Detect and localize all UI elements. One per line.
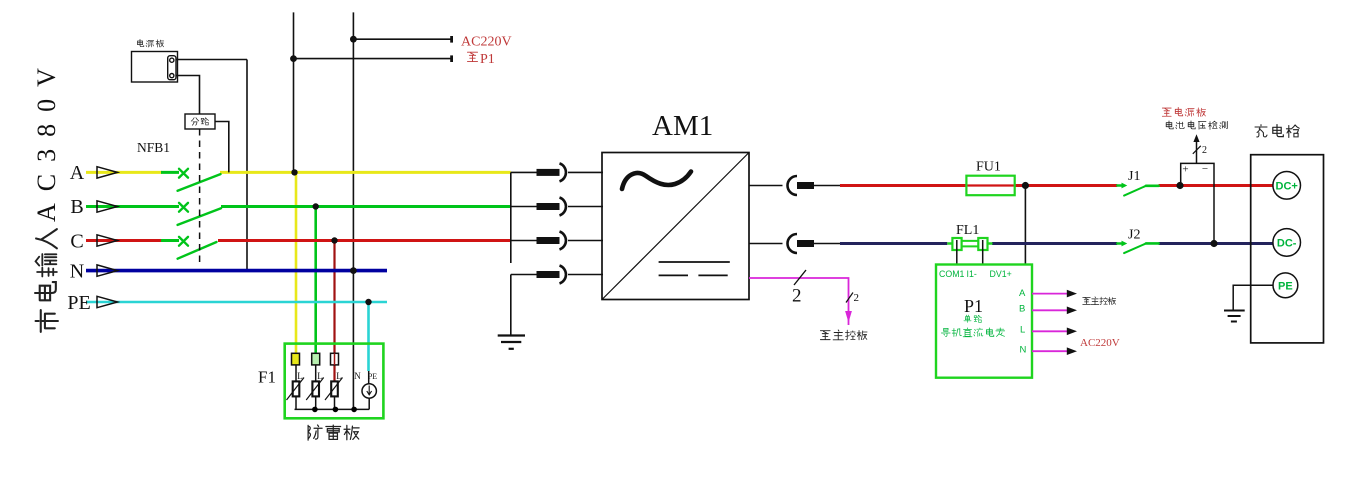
svg-text:J2: J2 bbox=[1128, 228, 1140, 243]
svg-text:L: L bbox=[317, 371, 323, 381]
svg-text:2: 2 bbox=[792, 286, 802, 307]
svg-text:AC220V: AC220V bbox=[1080, 337, 1120, 349]
svg-text:AC220V: AC220V bbox=[461, 35, 512, 50]
svg-text:A: A bbox=[1019, 288, 1026, 299]
svg-text:+: + bbox=[1182, 164, 1188, 176]
svg-text:P1: P1 bbox=[480, 52, 495, 67]
svg-text:F1: F1 bbox=[258, 368, 276, 387]
svg-text:PE: PE bbox=[1278, 280, 1293, 292]
svg-text:NFB1: NFB1 bbox=[137, 140, 170, 155]
svg-text:−: − bbox=[1202, 163, 1208, 175]
svg-text:2: 2 bbox=[1202, 145, 1207, 156]
svg-text:J1: J1 bbox=[1128, 169, 1140, 184]
svg-text:COM1: COM1 bbox=[939, 269, 965, 279]
svg-text:FL1: FL1 bbox=[956, 223, 979, 238]
svg-text:N: N bbox=[354, 371, 361, 381]
svg-text:L: L bbox=[297, 371, 303, 381]
svg-text:DC-: DC- bbox=[1277, 237, 1297, 249]
svg-text:N: N bbox=[70, 261, 84, 283]
svg-text:C: C bbox=[70, 231, 83, 253]
svg-text:L: L bbox=[1020, 325, 1025, 336]
svg-text:PE: PE bbox=[368, 372, 377, 381]
svg-text:DC+: DC+ bbox=[1276, 180, 1298, 192]
svg-text:2: 2 bbox=[854, 292, 860, 304]
svg-text:PE: PE bbox=[67, 292, 90, 314]
svg-text:AM1: AM1 bbox=[652, 110, 713, 142]
svg-text:B: B bbox=[1019, 304, 1025, 315]
svg-text:FU1: FU1 bbox=[976, 160, 1001, 175]
svg-text:DV1+: DV1+ bbox=[990, 269, 1012, 279]
svg-text:AC380V: AC380V bbox=[32, 56, 61, 222]
svg-text:A: A bbox=[70, 162, 85, 184]
svg-text:P1: P1 bbox=[964, 296, 983, 316]
svg-text:L: L bbox=[336, 371, 342, 381]
svg-text:N: N bbox=[1020, 344, 1027, 355]
svg-text:I1-: I1- bbox=[967, 269, 977, 279]
svg-text:B: B bbox=[70, 196, 83, 218]
